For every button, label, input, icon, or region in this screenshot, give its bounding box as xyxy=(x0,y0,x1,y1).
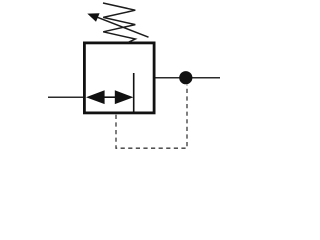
flow path double-headed arrow inside valve xyxy=(86,90,133,104)
adjustment arrow head (filled, pointing upper-left) xyxy=(87,13,99,22)
valve seat vertical line inside body xyxy=(133,73,135,113)
adjustable spring (zigzag) xyxy=(103,3,135,42)
wire P1 (left inlet port line) xyxy=(48,96,85,98)
pilot line (dashed feedback from outlet to valve bottom) xyxy=(116,85,187,148)
pressure regulator valve body (square) xyxy=(84,43,154,113)
adjustment arrow shaft (diagonal across spring) xyxy=(98,17,149,37)
wire P2 (right outlet port line) xyxy=(155,77,220,79)
node J1 (junction dot on outlet) xyxy=(179,71,192,84)
